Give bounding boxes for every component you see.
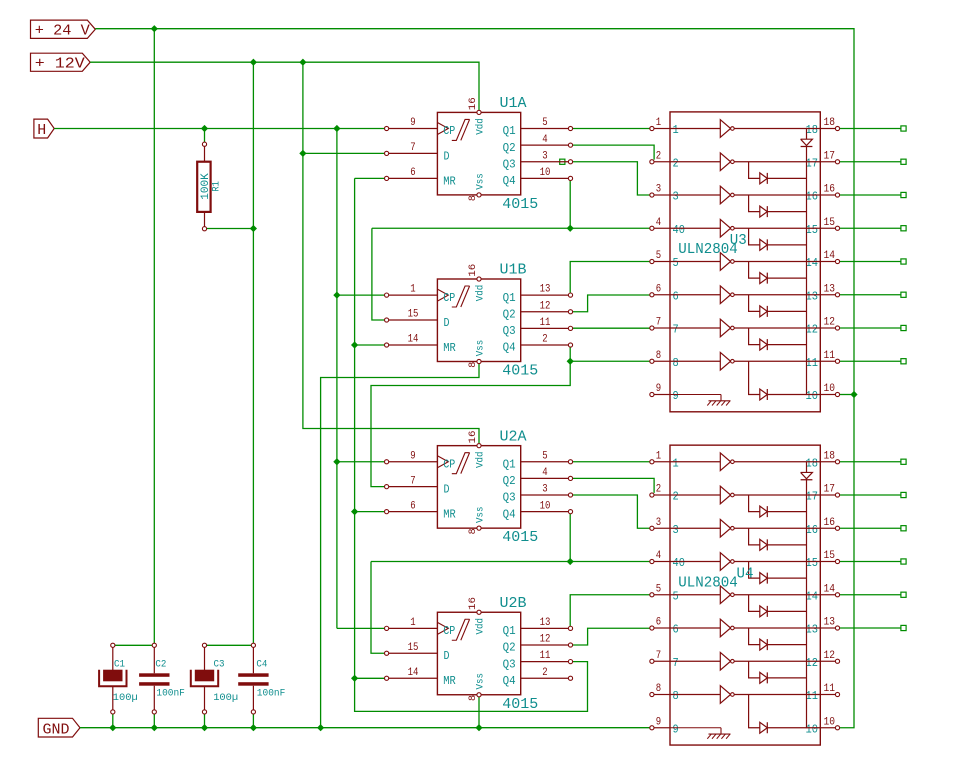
svg-text:16: 16 — [824, 517, 836, 529]
svg-text:4: 4 — [542, 134, 548, 146]
power label +24V — [31, 20, 96, 39]
wire-end square U3 out16 end — [901, 192, 906, 197]
svg-text:8: 8 — [468, 195, 479, 201]
svg-text:12: 12 — [806, 324, 819, 337]
svg-text:C3: C3 — [214, 658, 225, 670]
wire U4 out14 — [840, 594, 901, 596]
svg-text:CP: CP — [443, 124, 455, 138]
wire U3 out11 — [840, 360, 901, 362]
svg-text:13: 13 — [824, 283, 836, 295]
svg-text:4015: 4015 — [502, 696, 538, 713]
svg-text:GND: GND — [43, 721, 70, 738]
wire CP stub to U2A pin9 — [337, 461, 385, 463]
capacitor C3 100µ (polarised) — [191, 643, 238, 714]
svg-text:1: 1 — [656, 117, 662, 129]
svg-text:MR: MR — [443, 174, 456, 188]
wire U3 out15 — [840, 227, 901, 229]
wire-end square U3 out17 end — [901, 159, 906, 164]
wire U4 out16 — [840, 527, 901, 529]
wire MR stub to U2B pin14 — [355, 677, 385, 679]
svg-text:14: 14 — [806, 257, 819, 270]
wire U1B Q1 to U3 in5 — [570, 262, 649, 296]
svg-text:5: 5 — [656, 583, 661, 595]
svg-text:7: 7 — [410, 142, 415, 154]
svg-text:R1: R1 — [212, 181, 223, 192]
capacitor C4 100nF — [238, 643, 285, 714]
wire-end square U3 out11 end — [901, 359, 906, 364]
junction +12V/C4 — [250, 59, 257, 66]
svg-text:Vss: Vss — [475, 173, 487, 190]
wire-end square U3 out14 end — [901, 259, 906, 264]
junction +24V/C2 — [151, 25, 158, 32]
svg-text:13: 13 — [540, 284, 551, 296]
svg-text:Q3: Q3 — [503, 324, 516, 338]
svg-text:4: 4 — [656, 550, 662, 562]
junction U1B Q4 node — [567, 358, 574, 365]
wire net +24V rail / right drop to U4 COM — [95, 29, 854, 728]
wire-end square U4 out13 end — [901, 625, 906, 630]
wire R1 bottom to +12V drop — [205, 228, 254, 230]
svg-text:1: 1 — [410, 617, 416, 629]
svg-text:2: 2 — [542, 334, 547, 346]
svg-text:8: 8 — [673, 690, 679, 703]
svg-text:18: 18 — [824, 450, 836, 462]
wire-end square U3 out18 end — [901, 126, 906, 131]
svg-text:3: 3 — [656, 184, 661, 196]
svg-text:4015: 4015 — [502, 196, 538, 213]
svg-text:4015: 4015 — [502, 363, 538, 380]
svg-text:17: 17 — [824, 484, 836, 496]
svg-text:100µ: 100µ — [213, 692, 238, 704]
junction MR/U1B — [351, 341, 358, 348]
wire-end square U3 out13 end — [901, 292, 906, 297]
wire U1A Q2 to U3 in2 — [573, 145, 655, 160]
svg-text:16: 16 — [806, 524, 819, 537]
svg-text:5: 5 — [542, 117, 547, 129]
wire C3 bottom to GND — [204, 714, 206, 728]
wire MR stub to U1B pin14 — [355, 344, 385, 346]
svg-text:100K: 100K — [200, 173, 212, 200]
wire-end square U3 out15 end — [901, 226, 906, 231]
wire cascade U1A Q4 - U1B D - U3 in4 — [372, 178, 652, 320]
svg-text:17: 17 — [806, 491, 819, 504]
svg-text:D: D — [444, 316, 450, 330]
junction H/R1 — [201, 125, 208, 132]
svg-text:13: 13 — [824, 617, 836, 629]
wire-end square U4 out17 end — [901, 492, 906, 497]
svg-text:C1: C1 — [114, 658, 125, 670]
svg-text:7: 7 — [673, 324, 679, 337]
svg-text:3: 3 — [656, 517, 661, 529]
svg-text:Q1: Q1 — [503, 291, 516, 305]
wire-end square U3 out12 end — [901, 325, 906, 330]
wire net +12V drop to U2A Vdd — [303, 62, 479, 443]
wire net +12V rail to U1A Vdd — [90, 62, 479, 110]
svg-text:+ 24 V: + 24 V — [35, 23, 90, 40]
svg-text:15: 15 — [408, 642, 419, 654]
op-amp — IC U2B 4015 shift register unit — [385, 595, 573, 713]
svg-text:Q2: Q2 — [503, 474, 516, 488]
wire cascade U1B Q4 - U2A D - U3 in8 — [371, 345, 652, 487]
svg-text:Q4: Q4 — [503, 174, 516, 188]
resistor R1 100K — [197, 142, 222, 231]
svg-text:3: 3 — [542, 484, 547, 496]
svg-text:5: 5 — [656, 250, 661, 262]
svg-text:D: D — [444, 649, 450, 663]
svg-text:16: 16 — [468, 97, 479, 110]
svg-text:CP: CP — [443, 457, 455, 471]
wire U1B Q2 to U3 in6 — [570, 295, 649, 312]
svg-text:4: 4 — [656, 217, 662, 229]
wire net +12V drop to C4 — [252, 62, 254, 643]
capacitor C2 100nF — [139, 643, 185, 714]
svg-text:9: 9 — [656, 383, 661, 395]
svg-text:10: 10 — [824, 716, 836, 728]
wire U1A Q1 to U3 in1 — [573, 128, 650, 130]
svg-text:15: 15 — [806, 224, 819, 237]
svg-text:15: 15 — [806, 557, 819, 570]
svg-text:7: 7 — [656, 650, 661, 662]
input label H — [34, 119, 54, 139]
svg-text:6: 6 — [673, 290, 679, 303]
svg-text:H: H — [37, 122, 46, 139]
wire U3 out16 — [840, 194, 901, 196]
svg-text:8: 8 — [468, 528, 479, 534]
svg-text:3: 3 — [673, 524, 679, 537]
svg-text:1: 1 — [656, 450, 662, 462]
svg-text:2: 2 — [542, 667, 547, 679]
svg-text:12: 12 — [824, 317, 836, 329]
junction H/CP bus — [333, 125, 340, 132]
junction +12V/U1A D — [299, 150, 306, 157]
wire R1 top to H net — [204, 129, 206, 143]
svg-text:100nF: 100nF — [156, 687, 185, 699]
op-amp — IC U1B 4015 shift register unit — [385, 262, 573, 380]
wire U4 out17 — [840, 494, 901, 496]
svg-text:U2B: U2B — [500, 595, 527, 612]
junction +12V/U2A — [299, 59, 306, 66]
junction GND/U1B Vss — [317, 724, 324, 731]
op-amp — IC U2A 4015 shift register unit — [385, 428, 573, 546]
svg-text:11: 11 — [540, 317, 551, 329]
svg-text:14: 14 — [408, 667, 419, 679]
wire net GND rail to U4 pin9 — [80, 727, 650, 729]
svg-text:6: 6 — [673, 624, 679, 637]
svg-text:4015: 4015 — [502, 529, 538, 546]
svg-text:U4: U4 — [737, 566, 754, 583]
svg-text:12: 12 — [824, 650, 836, 662]
svg-text:+ 12V: + 12V — [35, 56, 85, 73]
wire-end square U4 out18 end — [901, 459, 906, 464]
svg-text:U1B: U1B — [500, 262, 527, 279]
svg-text:Q1: Q1 — [503, 457, 516, 471]
svg-text:17: 17 — [824, 150, 836, 162]
svg-text:Vss: Vss — [475, 506, 487, 523]
svg-text:17: 17 — [806, 157, 819, 170]
wire C2 bottom to GND — [153, 714, 155, 728]
svg-text:18: 18 — [806, 124, 819, 137]
svg-text:2: 2 — [656, 150, 661, 162]
wire U2B Vss to GND — [478, 697, 480, 728]
svg-text:16: 16 — [824, 184, 836, 196]
svg-text:6: 6 — [656, 617, 661, 629]
transistor array IC U3 ULN2804 — [650, 112, 840, 412]
wire U2B Q2 to U4 in6 — [570, 628, 649, 645]
svg-text:Q3: Q3 — [503, 491, 516, 505]
svg-text:9: 9 — [673, 723, 679, 736]
transistor array IC U4 ULN2804 — [650, 445, 840, 745]
svg-text:11: 11 — [540, 650, 551, 662]
wire MR stub to U2A pin6 — [355, 511, 385, 513]
wire U3 out13 — [840, 294, 901, 296]
svg-text:14: 14 — [408, 334, 419, 346]
svg-text:14: 14 — [806, 590, 819, 603]
wire U2A Q1 to U4 in1 — [573, 461, 650, 463]
svg-text:16: 16 — [468, 430, 479, 443]
svg-text:Q2: Q2 — [503, 641, 516, 655]
junction +24V/U3 COM — [850, 391, 857, 398]
svg-text:4: 4 — [542, 467, 548, 479]
svg-text:Vdd: Vdd — [475, 451, 487, 468]
svg-text:2: 2 — [673, 157, 679, 170]
wire U4 out18 — [840, 461, 901, 463]
svg-text:8: 8 — [656, 350, 661, 362]
wire U3 out12 — [840, 327, 901, 329]
wire U3 COM to +24V — [840, 394, 854, 396]
svg-text:3: 3 — [542, 150, 547, 162]
svg-text:11: 11 — [824, 683, 836, 695]
wire net MR vertical bus + link to U2B Q3 — [355, 178, 588, 711]
svg-text:1: 1 — [673, 457, 679, 470]
svg-text:2: 2 — [673, 491, 679, 504]
svg-text:10: 10 — [540, 500, 551, 512]
svg-text:Q4: Q4 — [503, 674, 516, 688]
svg-text:10: 10 — [824, 383, 836, 395]
svg-text:C2: C2 — [155, 658, 166, 670]
svg-text:7: 7 — [673, 657, 679, 670]
wire U4 out15 — [840, 561, 901, 563]
svg-text:Vdd: Vdd — [475, 618, 487, 635]
svg-text:U1A: U1A — [500, 95, 527, 112]
svg-text:Q4: Q4 — [503, 341, 516, 355]
junction GND/C2 — [151, 724, 158, 731]
svg-text:9: 9 — [673, 390, 679, 403]
wire U4 out13 — [840, 627, 901, 629]
svg-text:C4: C4 — [256, 658, 267, 670]
svg-text:9: 9 — [410, 117, 415, 129]
wire C4 bottom to GND — [252, 714, 254, 728]
wire U1B Vss to GND — [321, 364, 479, 728]
svg-text:6: 6 — [410, 167, 415, 179]
svg-text:10: 10 — [806, 723, 819, 736]
wire C1 top link — [113, 644, 152, 646]
svg-text:18: 18 — [824, 117, 836, 129]
svg-text:100µ: 100µ — [113, 692, 138, 704]
wire U2B Q1 to U4 in5 — [570, 595, 649, 629]
svg-text:1: 1 — [673, 124, 679, 137]
svg-text:ULN2804: ULN2804 — [678, 241, 738, 258]
junction MR/U2A — [351, 508, 358, 515]
wire C3 top link — [205, 644, 252, 646]
junction R1/+12V drop — [250, 225, 257, 232]
wire cascade U2A Q4 - U2B D - U4 in4 — [371, 512, 652, 654]
junction U1A Q4 node — [567, 225, 574, 232]
svg-text:11: 11 — [806, 357, 819, 370]
wire net CP vertical bus — [336, 129, 338, 629]
svg-text:7: 7 — [656, 317, 661, 329]
power label GND — [38, 718, 80, 738]
wire-end square U4 out14 end — [901, 592, 906, 597]
svg-text:15: 15 — [824, 217, 836, 229]
svg-text:MR: MR — [443, 674, 456, 688]
svg-text:2: 2 — [656, 484, 661, 496]
power label +12V — [31, 53, 91, 72]
svg-text:13: 13 — [806, 624, 819, 637]
wire U2A Q2 to U4 in2 — [573, 478, 655, 493]
svg-text:Vss: Vss — [475, 340, 487, 357]
svg-text:ULN2804: ULN2804 — [678, 575, 738, 592]
op-amp — IC U1A 4015 shift register unit — [385, 95, 573, 213]
svg-text:8: 8 — [673, 357, 679, 370]
svg-text:8: 8 — [468, 362, 479, 368]
svg-text:7: 7 — [410, 475, 415, 487]
svg-text:14: 14 — [824, 583, 836, 595]
svg-text:18: 18 — [806, 457, 819, 470]
wire C1 bottom to GND — [112, 714, 114, 728]
svg-text:40: 40 — [673, 224, 685, 237]
junction CP/U2A — [333, 458, 340, 465]
svg-text:9: 9 — [410, 450, 415, 462]
svg-text:8: 8 — [468, 695, 479, 701]
wire-end square U4 out16 end — [901, 526, 906, 531]
svg-text:12: 12 — [540, 634, 551, 646]
wire U3 out14 — [840, 261, 901, 263]
junction MR/U2B — [351, 675, 358, 682]
svg-text:6: 6 — [410, 500, 415, 512]
junction CP/U1B — [333, 292, 340, 299]
wire U1A Q3 to U3 in3 — [573, 162, 650, 195]
svg-text:CP: CP — [443, 624, 455, 638]
wire net +12V to U1A D — [303, 152, 385, 154]
svg-text:1: 1 — [410, 284, 416, 296]
capacitor C1 100µ (polarised) — [99, 643, 138, 714]
svg-text:10: 10 — [806, 390, 819, 403]
svg-text:40: 40 — [673, 557, 685, 570]
svg-text:16: 16 — [468, 597, 479, 610]
svg-text:8: 8 — [656, 683, 661, 695]
svg-text:15: 15 — [408, 309, 419, 321]
svg-text:9: 9 — [656, 716, 661, 728]
svg-text:U2A: U2A — [500, 428, 527, 445]
wire U3 out17 — [840, 161, 901, 163]
svg-text:CP: CP — [443, 291, 455, 305]
svg-text:5: 5 — [673, 590, 679, 603]
wire net +24V drop to C2 — [153, 29, 155, 644]
wire U1B Q3 to U3 in7 — [573, 327, 650, 329]
svg-text:16: 16 — [468, 264, 479, 277]
svg-text:Q3: Q3 — [503, 657, 516, 671]
svg-text:Vdd: Vdd — [475, 118, 487, 135]
junction U2A Q4 node — [567, 558, 574, 565]
svg-text:Q1: Q1 — [503, 624, 516, 638]
svg-text:MR: MR — [443, 341, 456, 355]
svg-text:5: 5 — [542, 450, 547, 462]
svg-text:13: 13 — [540, 617, 551, 629]
wire net H to U1A CP — [54, 128, 384, 130]
svg-text:14: 14 — [824, 250, 836, 262]
svg-text:100nF: 100nF — [257, 687, 286, 699]
wire CP stub to U2B pin1 — [337, 627, 385, 629]
wire-end square on U1A Q3 pin — [560, 159, 565, 164]
junction GND/U2B Vss — [475, 724, 482, 731]
svg-text:6: 6 — [656, 283, 661, 295]
svg-text:3: 3 — [673, 191, 679, 204]
svg-text:16: 16 — [806, 191, 819, 204]
svg-text:D: D — [444, 483, 450, 497]
wire U2A Q3 to U4 in3 — [573, 495, 650, 528]
svg-text:13: 13 — [806, 290, 819, 303]
svg-text:11: 11 — [824, 350, 836, 362]
svg-text:Q4: Q4 — [503, 507, 516, 521]
svg-text:12: 12 — [540, 300, 551, 312]
wire-end square U4 out15 end — [901, 559, 906, 564]
svg-text:Q2: Q2 — [503, 141, 516, 155]
svg-text:5: 5 — [673, 257, 679, 270]
svg-text:Q1: Q1 — [503, 124, 516, 138]
svg-text:Vss: Vss — [475, 673, 487, 690]
svg-text:15: 15 — [824, 550, 836, 562]
wire CP stub to U1B pin1 — [337, 294, 385, 296]
svg-text:Vdd: Vdd — [475, 285, 487, 302]
svg-text:Q3: Q3 — [503, 157, 516, 171]
svg-text:10: 10 — [540, 167, 551, 179]
svg-text:MR: MR — [443, 508, 456, 522]
junction GND/C3 — [201, 724, 208, 731]
junction GND/C4 — [250, 724, 257, 731]
junction GND/C1 — [109, 724, 116, 731]
svg-text:D: D — [444, 149, 450, 163]
svg-text:12: 12 — [806, 657, 819, 670]
svg-text:Q2: Q2 — [503, 307, 516, 321]
wire U3 out18 — [840, 128, 901, 130]
svg-text:11: 11 — [806, 690, 819, 703]
